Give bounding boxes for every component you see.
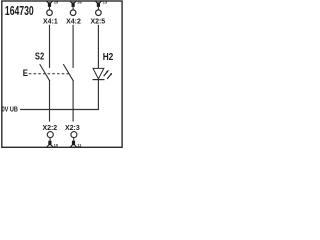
svg-text:X4:1: X4:1 [43, 17, 58, 26]
svg-text:26: 26 [77, 0, 82, 5]
svg-text:X2:3: X2:3 [65, 123, 80, 132]
svg-text:13: 13 [103, 0, 108, 5]
svg-text:10: 10 [54, 143, 59, 148]
svg-text:X2:2: X2:2 [42, 123, 57, 132]
svg-text:0V UB: 0V UB [2, 107, 18, 114]
svg-text:25: 25 [54, 0, 59, 5]
svg-text:X4:2: X4:2 [66, 17, 81, 26]
svg-text:X2:5: X2:5 [90, 17, 105, 26]
svg-text:E: E [23, 68, 28, 78]
svg-text:S2: S2 [35, 51, 45, 62]
svg-text:H2: H2 [103, 52, 114, 63]
svg-text:164730: 164730 [5, 3, 34, 18]
